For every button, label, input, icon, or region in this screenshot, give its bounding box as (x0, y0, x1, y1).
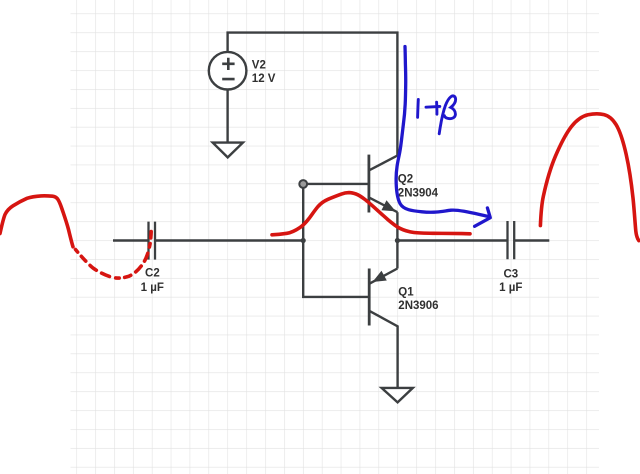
capacitor C3 (508, 221, 515, 259)
wire base bus: Q2 base to left vertical to Q1 base (303, 184, 369, 297)
node input junction (301, 238, 306, 243)
wire output node to C3 left plate (397, 239, 507, 241)
svg-text:V2: V2 (252, 59, 266, 71)
label Q2 2N3904 (398, 174, 439, 200)
svg-text:12 V: 12 V (252, 73, 276, 85)
svg-text:2N3904: 2N3904 (398, 187, 439, 199)
annotation blue text 1 (416, 100, 420, 118)
label C2 1uF (141, 267, 164, 294)
capacitor C2 (149, 222, 156, 260)
wire top rail: V2 plus to Q2 collector (228, 33, 398, 156)
node output junction (395, 238, 400, 243)
node base junction (gray) (299, 180, 307, 188)
wire input to C2 left plate (113, 239, 149, 241)
svg-text:C3: C3 (503, 268, 518, 280)
label Q1 2N3906 (398, 287, 438, 313)
ground under V2 (213, 143, 243, 158)
svg-text:2N3906: 2N3906 (398, 300, 438, 312)
label C3 1uF (499, 268, 522, 294)
svg-text:Q2: Q2 (398, 174, 413, 186)
svg-text:C2: C2 (145, 267, 160, 279)
transistor Q2 2N3904 (NPN) (369, 155, 398, 213)
annotation red output wave hump (540, 114, 638, 241)
voltage source V2 (209, 52, 247, 90)
ground under Q1 (382, 388, 413, 403)
wire emitters junction vertical (396, 212, 398, 268)
svg-text:1 µF: 1 µF (141, 282, 164, 294)
label V2 12V (252, 59, 276, 85)
wire C2 right plate to base node (155, 239, 303, 241)
svg-text:1 µF: 1 µF (499, 282, 522, 294)
transistor Q1 2N3906 (PNP) (369, 269, 397, 388)
svg-text:Q1: Q1 (398, 287, 414, 299)
annotation blue arrowhead (475, 208, 491, 226)
annotation red base wave (272, 193, 470, 235)
annotation red input wave dashed trough (76, 231, 152, 278)
annotation red input wave solid hump (0, 196, 73, 247)
wire V2 minus to ground (226, 90, 228, 143)
wire C3 right plate to output (514, 239, 549, 241)
annotation blue current path (396, 47, 487, 217)
annotation blue text beta (439, 96, 455, 134)
annotation blue text plus (426, 102, 440, 114)
